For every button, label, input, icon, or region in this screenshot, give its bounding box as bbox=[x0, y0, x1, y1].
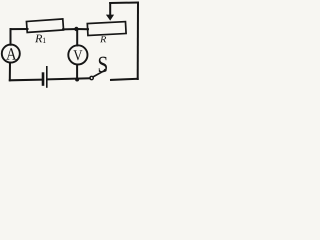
voltmeter V circle bbox=[68, 45, 87, 64]
wire: voltmeter top branch from junction down to voltmeter bbox=[76, 29, 78, 45]
switch S lever arm bbox=[93, 70, 105, 77]
rheostat slider arrow shaft bbox=[109, 3, 111, 15]
resistor R1 bbox=[26, 19, 63, 33]
label S for switch bbox=[99, 57, 107, 73]
label V inside voltmeter bbox=[73, 50, 82, 60]
wire: switch to bottom-right corner bbox=[111, 79, 138, 80]
switch S pivot circle bbox=[90, 76, 93, 79]
label R for rheostat bbox=[100, 36, 106, 42]
wire: top-right horizontal bbox=[110, 2, 138, 5]
wire: top-left horizontal from corner to resistor R1 bbox=[11, 28, 28, 30]
battery short negative plate bbox=[42, 74, 45, 85]
rheostat R box bbox=[87, 22, 126, 36]
wire: junction to rheostat R left terminal bbox=[77, 28, 88, 30]
battery long positive plate bbox=[46, 67, 48, 87]
wire: right vertical bbox=[137, 3, 139, 80]
wire: voltmeter bottom branch down to bottom wire bbox=[76, 65, 78, 80]
label A inside ammeter bbox=[6, 48, 16, 59]
node junction dot between R1 and R bbox=[74, 27, 78, 31]
wire: left vertical from top-left corner down to ammeter bbox=[10, 29, 12, 45]
wire: bottom left horizontal to battery bbox=[10, 79, 42, 82]
wire: ammeter bottom to bottom-left corner bbox=[9, 63, 11, 81]
label R1 for resistor bbox=[35, 35, 42, 43]
wire: R1 right lead to node junction bbox=[63, 28, 77, 30]
node dot where voltmeter joins bottom wire bbox=[75, 78, 79, 82]
wire: battery to switch pivot bbox=[48, 78, 90, 79]
rheostat slider arrowhead bbox=[106, 15, 114, 21]
switch S lever tip dot bbox=[104, 69, 107, 72]
ammeter A circle bbox=[2, 45, 20, 63]
